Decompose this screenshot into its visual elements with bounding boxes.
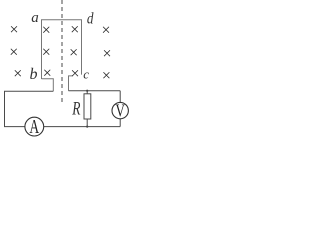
svg-text:×: × (70, 65, 79, 82)
svg-text:R: R (71, 99, 80, 119)
svg-text:×: × (43, 65, 52, 82)
svg-text:×: × (13, 65, 22, 82)
svg-text:×: × (42, 44, 51, 61)
svg-text:×: × (102, 45, 111, 62)
svg-text:c: c (83, 67, 89, 82)
svg-text:V: V (116, 100, 126, 120)
svg-text:×: × (70, 22, 79, 39)
svg-text:×: × (101, 22, 110, 39)
svg-text:×: × (9, 44, 18, 61)
svg-text:×: × (102, 67, 111, 84)
svg-text:b: b (30, 66, 38, 83)
svg-text:×: × (69, 44, 78, 61)
svg-text:a: a (31, 10, 39, 26)
svg-text:d: d (87, 11, 94, 28)
svg-text:×: × (9, 22, 18, 39)
svg-text:×: × (42, 22, 51, 39)
svg-text:A: A (29, 117, 39, 138)
